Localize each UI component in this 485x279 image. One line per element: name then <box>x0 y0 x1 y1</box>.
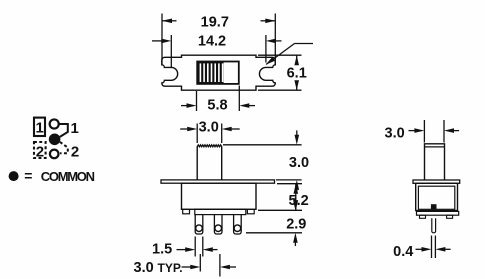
front view: bottom feet and terminal strip <box>183 209 255 214</box>
dimension 2.9 (terminal hole position, front view) <box>246 198 306 247</box>
schematic: common contact (filled dot) <box>49 134 61 146</box>
svg-text:TYP.: TYP. <box>158 261 183 275</box>
side view: mounting flange <box>413 180 460 183</box>
dimension 19.7 (overall width, top view) <box>162 14 275 66</box>
svg-text:5.2: 5.2 <box>289 193 309 209</box>
dimension 5.2 (body height, front view) <box>258 184 309 211</box>
front view: mounting flange plate <box>161 180 275 183</box>
dimension 3.0 (actuator width, front view) <box>180 119 240 143</box>
dimension 14.2 (slot centers, top view) <box>152 33 282 67</box>
svg-text:19.7: 19.7 <box>201 14 229 30</box>
legend: filled dot = COMMON <box>9 168 95 184</box>
svg-text:0.4: 0.4 <box>393 244 413 260</box>
dimension 6.1 (body height, top view) <box>258 55 307 90</box>
dimension 5.8 (knob width, top view) <box>181 86 255 114</box>
schematic: position box 1 (solid) <box>34 118 45 137</box>
svg-text:2: 2 <box>36 144 44 161</box>
svg-text:1.5: 1.5 <box>152 241 172 257</box>
dimension 1.5 (terminal width, front view) <box>152 237 217 258</box>
schematic: solid link common to terminal 1 <box>59 124 68 137</box>
schematic: dashed link common to terminal 2 <box>60 142 68 153</box>
leader line pointing to mounting slot <box>266 44 313 65</box>
svg-text:=: = <box>24 168 32 184</box>
svg-text:2: 2 <box>71 144 79 161</box>
schematic: position box 2 (dashed) <box>34 142 46 161</box>
dimension 0.4 (pin thickness, side view) <box>393 236 450 261</box>
svg-text:1: 1 <box>71 120 79 137</box>
front view: terminals 1, 2, 3 with holes <box>195 215 241 234</box>
side view: actuator with cap line <box>425 144 445 180</box>
svg-text:3.0: 3.0 <box>385 125 405 141</box>
schematic: terminal label 1 <box>71 120 79 137</box>
svg-text:3.0: 3.0 <box>199 119 219 135</box>
side view: body with inner wall <box>416 183 458 210</box>
schematic: terminal label 2 <box>71 144 79 161</box>
schematic: terminal 1 contact circle <box>50 119 59 128</box>
svg-text:6.1: 6.1 <box>287 65 307 81</box>
svg-text:1: 1 <box>36 120 44 137</box>
side view: bottom feet and terminal base <box>417 211 459 218</box>
dimension 3.0 (actuator height, front view) <box>223 130 309 193</box>
top view: switch body outline with mounting ears <box>162 55 275 90</box>
side view: terminal pin <box>432 218 436 233</box>
top view: slider knob with knurled grip <box>197 62 239 84</box>
svg-text:14.2: 14.2 <box>198 33 226 49</box>
front view: actuator with knurl <box>197 145 222 180</box>
schematic: terminal 2 contact circle <box>50 150 59 159</box>
svg-text:2.9: 2.9 <box>286 216 306 232</box>
svg-text:3.0: 3.0 <box>289 155 309 171</box>
svg-text:COMMON: COMMON <box>41 169 95 184</box>
svg-text:5.8: 5.8 <box>207 98 227 114</box>
dimension 3.0 TYP. (terminal pitch, front view) <box>134 254 237 277</box>
svg-text:3.0: 3.0 <box>134 260 154 276</box>
front view: switch body <box>182 183 257 209</box>
dimension 3.0 (actuator width, side view) <box>385 120 460 143</box>
